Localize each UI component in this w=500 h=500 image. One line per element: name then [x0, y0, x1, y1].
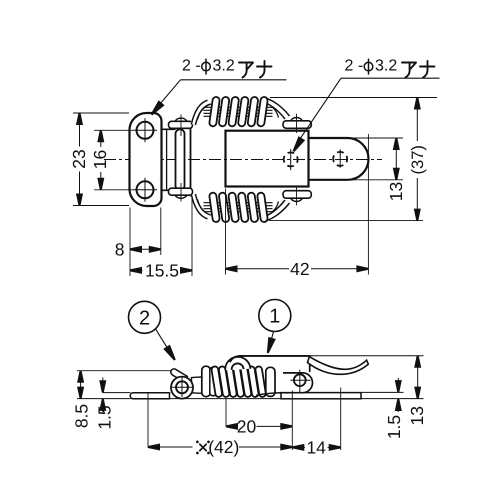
svg-text:20: 20 [237, 416, 257, 436]
svg-text:3.2: 3.2 [375, 58, 397, 75]
body bottom edge [256, 393, 288, 396]
body right edge [309, 356, 311, 372]
surface line under spring [170, 398, 282, 400]
13 dim right [417, 356, 419, 399]
20 dim [226, 425, 292, 427]
*(42) dim [148, 446, 292, 448]
right base plate [281, 393, 361, 399]
claw finger [171, 369, 188, 382]
hand-drawn reference mark [200, 444, 206, 450]
rivet boss [283, 373, 313, 393]
svg-text:42: 42 [290, 259, 309, 279]
svg-text:14: 14 [306, 437, 326, 457]
svg-text:1: 1 [269, 306, 280, 328]
catch arch over spring [225, 357, 250, 370]
svg-text:13: 13 [386, 182, 406, 201]
left label phi [202, 62, 211, 71]
svg-text:3.2: 3.2 [213, 58, 235, 75]
13 dim (top view right) [350, 138, 403, 180]
bail loop [309, 138, 369, 180]
lever handle [308, 357, 369, 375]
15.5 dim [130, 269, 192, 271]
14 dim [292, 446, 340, 448]
body hole (dashed) [284, 152, 298, 166]
hand-drawn katakana right label [402, 61, 435, 78]
1.5 dim left (outside arrows) [102, 378, 104, 413]
bottom spring (mirror) [191, 186, 311, 222]
balloon 2 [129, 301, 161, 333]
8 dim [130, 248, 161, 250]
svg-text:2 -: 2 - [345, 58, 364, 75]
pivot housing [171, 377, 193, 399]
svg-text:13: 13 [407, 406, 427, 425]
left base plate [130, 393, 169, 399]
surface lines left [103, 392, 131, 394]
svg-text:16: 16 [90, 150, 110, 169]
42 dim [226, 268, 369, 270]
svg-text:2 -: 2 - [182, 58, 201, 75]
bail hole (dashed) [333, 152, 347, 166]
8.5 dim [77, 370, 172, 372]
link bar [192, 377, 205, 394]
plate hole top [137, 122, 154, 139]
23 dim [73, 113, 129, 206]
svg-text:(42): (42) [208, 437, 239, 457]
left label leader [154, 80, 287, 112]
svg-text:8.5: 8.5 [72, 404, 92, 428]
16 dim [94, 130, 133, 190]
body top edge [230, 356, 240, 362]
bottom flange bar [175, 195, 187, 198]
top spring [191, 97, 311, 133]
svg-text:8: 8 [115, 239, 125, 259]
spring wire bundle [204, 107, 273, 116]
(37) dim [269, 98, 437, 221]
spring left hook [193, 102, 209, 125]
surface lines right [361, 391, 404, 393]
mounting plate [130, 113, 162, 206]
clip outer edge [190, 123, 192, 197]
ext lines down [148, 388, 341, 451]
plate hole bottom [137, 181, 154, 198]
right anchor tab [291, 118, 303, 121]
svg-text:1.5: 1.5 [384, 415, 404, 439]
spring right cap [266, 367, 275, 396]
body rivet [294, 374, 306, 386]
8 / 15.5 ext lines [130, 199, 192, 277]
balloon 1 [259, 300, 291, 332]
centerline [104, 159, 382, 161]
1.5 dim right (outside arrows) [397, 378, 399, 412]
svg-text:(37): (37) [409, 145, 427, 174]
svg-text:2: 2 [139, 308, 150, 330]
right label phi [364, 62, 373, 71]
svg-text:23: 23 [69, 149, 89, 168]
clip strip [176, 129, 185, 190]
right label leader [296, 78, 440, 145]
hand-drawn katakana left label [239, 61, 272, 78]
spring right hook [263, 100, 288, 118]
svg-text:1.5: 1.5 [95, 405, 115, 429]
13 extension line (body top, to right) [310, 355, 424, 357]
svg-text:15.5: 15.5 [145, 260, 179, 280]
spring left caps [202, 366, 211, 396]
side spring coils [211, 366, 222, 397]
pivot rivet [176, 381, 188, 393]
42 ext lines [226, 134, 369, 275]
top flange bar [175, 118, 187, 121]
ledge lines plate to clip [162, 129, 176, 190]
body rectangle [226, 131, 309, 187]
spring coil loops [209, 97, 220, 127]
